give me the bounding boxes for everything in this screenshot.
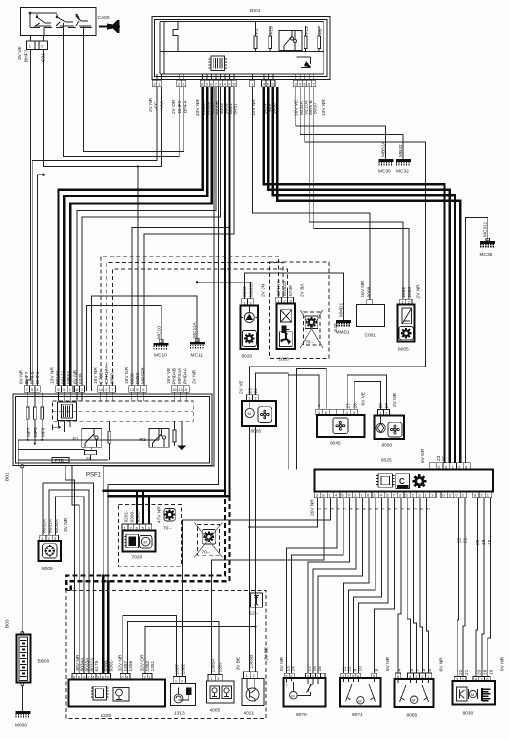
- svg-text:6V VE: 6V VE: [361, 392, 367, 406]
- svg-text:1365A: 1365A: [210, 658, 216, 673]
- svg-text:70--: 70--: [163, 526, 172, 532]
- svg-text:X40: X40: [333, 323, 339, 332]
- svg-text:BSI1: BSI1: [250, 8, 261, 14]
- svg-text:PTB: PTB: [55, 458, 64, 464]
- svg-text:6V NR: 6V NR: [279, 656, 285, 671]
- svg-text:8034A: 8034A: [54, 518, 60, 533]
- svg-text:8071: 8071: [352, 712, 363, 718]
- svg-text:8009: 8009: [42, 566, 53, 572]
- svg-text:M: M: [358, 698, 361, 703]
- svg-text:C001: C001: [365, 333, 377, 339]
- svg-text:9300-: 9300-: [129, 510, 135, 523]
- svg-text:7020: 7020: [132, 555, 143, 561]
- svg-text:F6: F6: [318, 29, 324, 35]
- svg-text:3V NR: 3V NR: [63, 517, 69, 532]
- svg-text:MF7: MF7: [26, 427, 32, 437]
- svg-text:9: 9: [374, 669, 380, 672]
- svg-text:F4: F4: [254, 29, 260, 35]
- svg-text:8050: 8050: [382, 443, 393, 449]
- svg-text:1357: 1357: [218, 661, 224, 672]
- svg-text:1313: 1313: [174, 711, 185, 717]
- svg-text:+AA: +AA: [159, 100, 165, 110]
- svg-text:12--: 12--: [250, 611, 259, 617]
- svg-text:10: 10: [232, 82, 237, 87]
- svg-text:1357: 1357: [175, 663, 181, 674]
- svg-text:2V OR: 2V OR: [171, 99, 177, 114]
- svg-text:1356: 1356: [128, 660, 134, 671]
- svg-text:MC11: MC11: [191, 353, 204, 359]
- svg-text:BHF5: BHF5: [30, 371, 36, 384]
- svg-text:M: M: [412, 698, 415, 703]
- svg-text:M000: M000: [15, 723, 27, 729]
- svg-text:4005: 4005: [210, 708, 221, 714]
- svg-text:C738: C738: [99, 372, 105, 384]
- svg-text:D050: D050: [135, 372, 141, 384]
- svg-text:22: 22: [457, 537, 463, 543]
- svg-text:8032A: 8032A: [41, 518, 47, 533]
- svg-text:BHF7: BHF7: [24, 371, 30, 384]
- svg-text:9013A: 9013A: [55, 369, 61, 384]
- svg-text:20: 20: [477, 669, 483, 675]
- svg-text:3V VE: 3V VE: [17, 46, 23, 60]
- svg-text:13: 13: [130, 387, 135, 392]
- svg-text:1365B: 1365B: [248, 655, 254, 669]
- svg-text:70--: 70--: [305, 340, 314, 346]
- svg-text:27: 27: [384, 403, 390, 409]
- svg-text:5: 5: [409, 669, 415, 672]
- svg-text:19: 19: [488, 669, 494, 675]
- svg-text:BHF7: BHF7: [24, 49, 30, 62]
- svg-text:7: 7: [415, 669, 421, 672]
- svg-text:M: M: [144, 540, 147, 545]
- svg-text:F15: F15: [268, 26, 274, 35]
- svg-text:21: 21: [464, 669, 470, 675]
- svg-text:CPH7A: CPH7A: [276, 279, 282, 296]
- svg-text:24: 24: [253, 388, 259, 394]
- svg-text:6V GR: 6V GR: [420, 448, 426, 463]
- svg-text:MC30: MC30: [378, 169, 391, 175]
- svg-text:2V NR: 2V NR: [148, 97, 154, 112]
- svg-text:6: 6: [427, 669, 433, 672]
- svg-text:8025: 8025: [381, 458, 392, 464]
- svg-text:8065: 8065: [407, 713, 418, 719]
- svg-text:PHD4A: PHD4A: [183, 367, 189, 384]
- svg-text:8045: 8045: [330, 441, 341, 447]
- svg-text:22: 22: [458, 669, 464, 675]
- svg-text:9201-: 9201-: [123, 510, 129, 523]
- svg-text:MC311: MC311: [483, 222, 489, 237]
- svg-text:3: 3: [421, 669, 427, 672]
- svg-text:2V NR: 2V NR: [392, 392, 398, 407]
- svg-text:9301-: 9301-: [135, 510, 141, 523]
- svg-text:6V NR: 6V NR: [500, 656, 506, 671]
- svg-text:MB32: MB32: [398, 144, 404, 157]
- svg-text:25: 25: [441, 455, 447, 461]
- svg-text:8030: 8030: [463, 711, 474, 717]
- svg-text:8060: 8060: [110, 373, 116, 384]
- svg-text:6339: 6339: [78, 373, 84, 384]
- svg-text:6V NR: 6V NR: [19, 369, 25, 384]
- svg-text:8058: 8058: [130, 373, 136, 384]
- svg-text:8020: 8020: [242, 354, 253, 360]
- svg-text:9301-: 9301-: [109, 659, 115, 672]
- svg-text:4: 4: [396, 669, 402, 672]
- svg-text:16V GR: 16V GR: [124, 366, 130, 384]
- svg-text:2690: 2690: [407, 286, 413, 297]
- svg-text:2V JN: 2V JN: [261, 283, 267, 297]
- svg-text:MMD1: MMD1: [338, 303, 344, 317]
- svg-text:8065: 8065: [251, 429, 262, 435]
- svg-text:MC32: MC32: [396, 169, 409, 175]
- svg-text:40V NR: 40V NR: [195, 99, 201, 116]
- svg-text:BHF5: BHF5: [177, 100, 183, 113]
- svg-text:23: 23: [436, 455, 442, 461]
- svg-text:8031A: 8031A: [48, 518, 54, 533]
- svg-text:6V NR: 6V NR: [73, 369, 79, 384]
- svg-text:23: 23: [248, 388, 254, 394]
- svg-text:C: C: [399, 477, 405, 486]
- svg-text:2V NR: 2V NR: [192, 369, 198, 384]
- svg-text:1362: 1362: [181, 663, 187, 674]
- svg-text:CA00: CA00: [98, 15, 110, 21]
- svg-text:16: 16: [172, 387, 177, 392]
- svg-text:MC10: MC10: [154, 353, 167, 359]
- svg-text:MB51A: MB51A: [381, 140, 387, 157]
- svg-text:MR5A: MR5A: [66, 370, 72, 384]
- svg-text:BHF4: BHF4: [35, 371, 41, 384]
- svg-text:2692: 2692: [401, 286, 407, 297]
- svg-text:19: 19: [487, 539, 493, 545]
- svg-text:2V BA: 2V BA: [300, 283, 306, 297]
- svg-text:9008: 9008: [367, 286, 373, 297]
- svg-text:27: 27: [346, 403, 352, 409]
- svg-text:28: 28: [353, 403, 359, 409]
- svg-text:10V NR: 10V NR: [50, 367, 56, 384]
- svg-text:8070: 8070: [296, 712, 307, 718]
- svg-text:1620: 1620: [279, 357, 290, 363]
- svg-text:MF4: MF4: [41, 427, 47, 437]
- svg-text:MPSFB: MPSFB: [141, 367, 147, 384]
- svg-text:6179: 6179: [94, 660, 100, 671]
- svg-text:6V NR: 6V NR: [385, 656, 391, 671]
- svg-text:4021: 4021: [244, 711, 255, 717]
- svg-text:8051: 8051: [233, 103, 239, 114]
- svg-text:2V NR: 2V NR: [416, 284, 422, 299]
- svg-text:2V VE: 2V VE: [239, 380, 245, 394]
- svg-text:MPS4A: MPS4A: [177, 367, 183, 384]
- svg-text:6739: 6739: [288, 285, 294, 296]
- svg-text:10V NR: 10V NR: [321, 99, 327, 116]
- svg-text:18: 18: [483, 669, 489, 675]
- svg-text:M: M: [291, 693, 294, 698]
- svg-text:14: 14: [99, 387, 104, 392]
- svg-text:13: 13: [178, 387, 183, 392]
- svg-text:32V NR: 32V NR: [118, 654, 124, 671]
- svg-text:12: 12: [347, 666, 353, 672]
- svg-text:10: 10: [357, 666, 363, 672]
- svg-text:21: 21: [462, 537, 468, 543]
- svg-text:M: M: [248, 411, 251, 416]
- svg-text:16V NR: 16V NR: [360, 280, 366, 297]
- svg-text:47V NR: 47V NR: [157, 506, 163, 523]
- svg-text:26V NR: 26V NR: [310, 499, 316, 516]
- svg-text:10: 10: [271, 82, 276, 87]
- svg-text:1320: 1320: [101, 713, 112, 719]
- svg-text:16V NR: 16V NR: [93, 367, 99, 384]
- svg-text:BB00: BB00: [38, 659, 50, 665]
- svg-text:16: 16: [317, 666, 323, 672]
- svg-text:PSF1: PSF1: [86, 473, 102, 479]
- svg-text:3V BE: 3V BE: [236, 657, 242, 671]
- svg-text:MC10: MC10: [156, 326, 162, 339]
- svg-text:28: 28: [378, 403, 384, 409]
- svg-text:8005: 8005: [398, 347, 409, 353]
- svg-text:PHD4B: PHD4B: [172, 368, 178, 384]
- svg-text:16V VE: 16V VE: [294, 100, 300, 116]
- svg-text:8050: 8050: [242, 286, 248, 297]
- svg-text:MC35: MC35: [480, 252, 493, 258]
- svg-text:2V BE: 2V BE: [263, 647, 269, 661]
- svg-text:6V NR: 6V NR: [439, 657, 445, 672]
- svg-text:MF5: MF5: [33, 427, 39, 437]
- svg-text:1351: 1351: [150, 660, 156, 671]
- svg-text:16V VE: 16V VE: [166, 368, 172, 384]
- svg-text:F14: F14: [304, 26, 310, 35]
- svg-text:M1620: M1620: [282, 281, 288, 296]
- svg-text:20: 20: [475, 539, 481, 545]
- svg-text:70--: 70--: [202, 550, 211, 556]
- svg-text:M: M: [471, 692, 474, 697]
- svg-text:MC11A: MC11A: [192, 322, 198, 338]
- svg-text:32V OR: 32V OR: [140, 654, 146, 672]
- svg-text:M9020: M9020: [249, 282, 255, 297]
- svg-text:14: 14: [290, 666, 296, 672]
- svg-text:B01: B01: [5, 472, 11, 481]
- svg-text:9017A: 9017A: [61, 369, 67, 384]
- svg-text:B03: B03: [5, 619, 11, 628]
- svg-text:CPH17A: CPH17A: [104, 365, 110, 384]
